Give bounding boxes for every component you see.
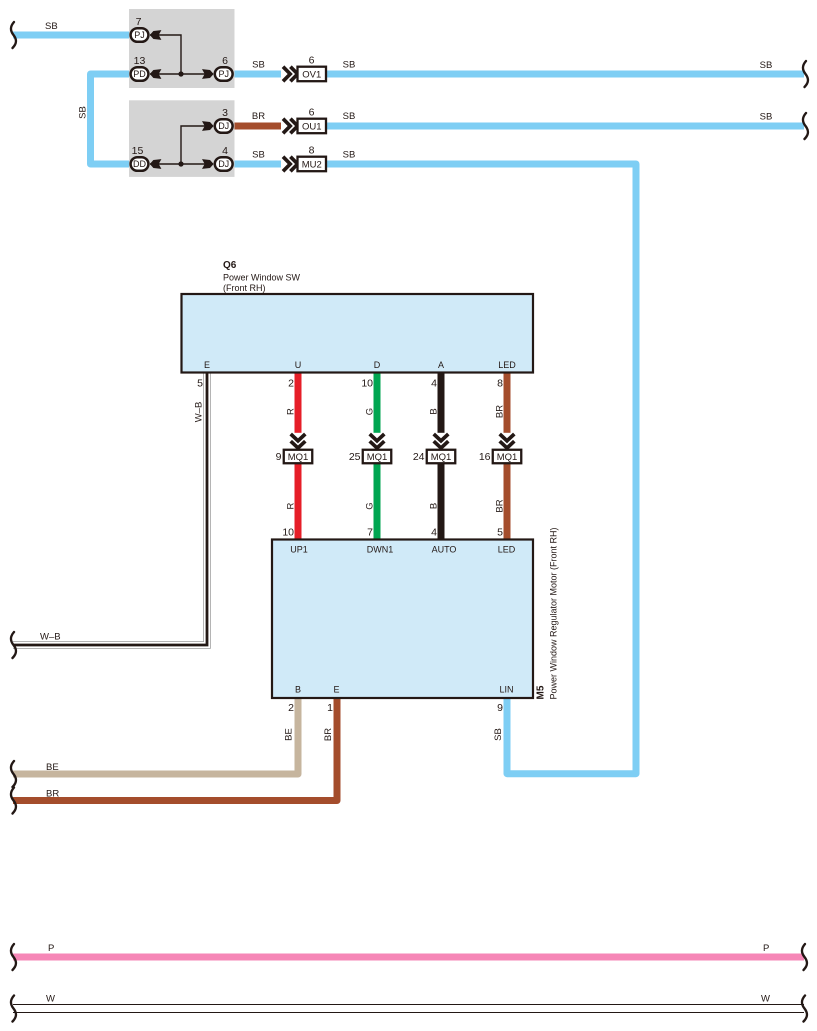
wire W bottom: [13, 1004, 804, 1013]
svg-text:5: 5: [497, 527, 503, 539]
svg-text:25: 25: [349, 451, 361, 463]
svg-text:(Front RH): (Front RH): [223, 283, 266, 293]
connector MU2 pin 8: [298, 145, 327, 172]
svg-text:DD: DD: [133, 159, 146, 169]
svg-text:MU2: MU2: [302, 159, 322, 170]
svg-text:7: 7: [367, 527, 373, 539]
svg-text:MQ1: MQ1: [497, 452, 518, 463]
wire BR from Q6 pin LED: [504, 371, 511, 541]
wire SB row B: PJ6 to right edge: [231, 71, 804, 78]
svg-text:BR: BR: [252, 111, 265, 122]
break symbol P right: [802, 944, 807, 970]
svg-text:SB: SB: [45, 21, 58, 32]
break symbol BE left: [11, 761, 16, 787]
svg-text:2: 2: [288, 702, 294, 714]
connector MQ1 pin 25: [349, 450, 391, 464]
svg-text:7: 7: [136, 16, 142, 28]
svg-text:LED: LED: [498, 360, 516, 370]
svg-text:B: B: [295, 685, 301, 695]
svg-text:15: 15: [132, 145, 144, 157]
arrow into DJ4: [202, 159, 214, 169]
svg-text:W–B: W–B: [40, 632, 61, 643]
wire inside J2: [150, 126, 213, 164]
svg-text:E: E: [204, 360, 210, 370]
svg-text:W: W: [761, 994, 770, 1005]
svg-text:D: D: [374, 360, 381, 370]
svg-text:1: 1: [327, 702, 333, 714]
svg-text:8: 8: [497, 378, 503, 390]
svg-text:4: 4: [431, 527, 437, 539]
svg-text:DJ: DJ: [218, 159, 229, 169]
connector PD pin 13: [131, 55, 149, 81]
svg-text:9: 9: [497, 702, 503, 714]
svg-text:Power Window SW: Power Window SW: [223, 273, 301, 283]
svg-text:SB: SB: [343, 59, 356, 70]
break symbol BR left: [11, 788, 16, 814]
wire SB top-left to PJ7: [13, 32, 136, 39]
svg-text:DJ: DJ: [218, 121, 229, 131]
arrow into PJ6: [202, 69, 214, 79]
wire SB row D: DJ4 via MU2 right side down to LIN: [231, 164, 636, 774]
svg-text:9: 9: [276, 451, 282, 463]
svg-text:PJ: PJ: [134, 30, 145, 40]
svg-text:B: B: [429, 408, 440, 414]
wire W-B from Q6 pin E: [13, 371, 207, 645]
wire BE from motor pin B: [13, 696, 298, 774]
connector OV1 pin 6: [298, 55, 327, 82]
chevron down wire U: [290, 433, 307, 450]
svg-text:PJ: PJ: [218, 69, 229, 79]
svg-text:4: 4: [222, 145, 228, 157]
svg-text:BR: BR: [323, 728, 334, 741]
svg-text:DWN1: DWN1: [367, 545, 394, 555]
svg-text:W: W: [46, 994, 55, 1005]
svg-text:10: 10: [361, 378, 373, 390]
svg-text:U: U: [295, 360, 302, 370]
component M5 Power Window Regulator Motor box: [272, 540, 533, 699]
svg-text:MQ1: MQ1: [367, 452, 388, 463]
break symbol W right: [802, 996, 807, 1022]
svg-text:B: B: [429, 503, 440, 509]
wire P bottom: [13, 954, 804, 961]
connector MQ1 pin 24: [413, 450, 455, 464]
svg-text:4: 4: [431, 378, 437, 390]
label Q6 title: [223, 260, 301, 293]
wire SB from PD left down to DD: [91, 74, 137, 164]
connector MQ1 pin 9: [276, 450, 313, 464]
arrow into DJ3: [202, 121, 214, 131]
svg-text:6: 6: [222, 55, 228, 67]
svg-text:E: E: [333, 685, 339, 695]
chevron row D: [281, 156, 298, 173]
svg-text:Q6: Q6: [223, 260, 237, 271]
connector DD pin 15: [131, 145, 149, 171]
svg-text:BR: BR: [46, 789, 59, 800]
svg-text:6: 6: [309, 107, 315, 119]
connector PJ pin 7: [131, 16, 149, 42]
connector PJ pin 6: [215, 55, 233, 81]
chevron down wire D: [369, 433, 386, 450]
svg-text:3: 3: [222, 107, 228, 119]
arrow into DD: [150, 159, 162, 169]
junction dot J1: [178, 71, 183, 76]
svg-text:SB: SB: [343, 149, 356, 160]
svg-text:SB: SB: [493, 728, 504, 741]
wire B from Q6 pin A: [438, 371, 445, 541]
break symbol row B right: [803, 61, 808, 87]
svg-text:5: 5: [197, 378, 203, 390]
svg-text:PD: PD: [133, 69, 146, 79]
svg-text:G: G: [365, 408, 376, 415]
break symbol P left: [11, 944, 16, 970]
arrow into PJ7: [150, 30, 162, 40]
svg-text:W–B: W–B: [194, 402, 205, 423]
svg-text:13: 13: [134, 55, 146, 67]
svg-text:OV1: OV1: [302, 69, 321, 80]
svg-text:AUTO: AUTO: [432, 545, 457, 555]
svg-text:6: 6: [309, 55, 315, 67]
connector OU1 pin 6: [298, 107, 327, 134]
svg-text:G: G: [365, 502, 376, 509]
connector MQ1 pin 16: [479, 450, 521, 464]
break symbol SB top-left: [11, 22, 16, 48]
svg-text:BR: BR: [495, 405, 506, 418]
svg-text:BE: BE: [284, 728, 295, 741]
svg-text:2: 2: [288, 378, 294, 390]
break symbol row C right: [803, 113, 808, 139]
svg-text:MQ1: MQ1: [288, 452, 309, 463]
junction dot J2: [178, 161, 183, 166]
svg-text:Power Window Regulator Motor (: Power Window Regulator Motor (Front RH): [549, 527, 559, 699]
svg-text:BE: BE: [46, 762, 59, 773]
svg-text:SB: SB: [343, 111, 356, 122]
wire BR row C: DJ3 to OU1: [231, 123, 312, 130]
svg-text:UP1: UP1: [290, 545, 308, 555]
chevron down wire A: [433, 433, 450, 450]
connector DJ pin 4: [215, 145, 233, 171]
chevron row C: [281, 118, 298, 135]
wire inside J1: [150, 35, 213, 74]
svg-text:SB: SB: [252, 59, 265, 70]
svg-text:10: 10: [282, 527, 294, 539]
connector DJ pin 3: [215, 107, 233, 133]
arrow into PD: [150, 69, 162, 79]
svg-text:16: 16: [479, 451, 491, 463]
svg-text:P: P: [763, 943, 769, 954]
svg-text:R: R: [286, 502, 297, 509]
wire BR from motor pin E: [13, 696, 337, 801]
junction block J1 (gray box top): [129, 9, 235, 88]
chevron row B: [281, 66, 298, 83]
svg-text:SB: SB: [760, 60, 773, 71]
break symbol W left: [11, 996, 16, 1022]
svg-text:M5: M5: [536, 685, 547, 699]
wire R from Q6 pin U: [295, 371, 302, 541]
svg-text:SB: SB: [760, 112, 773, 123]
break symbol W-B left: [11, 632, 16, 658]
svg-text:BR: BR: [495, 499, 506, 512]
svg-text:R: R: [286, 408, 297, 415]
svg-text:A: A: [438, 360, 444, 370]
component Q6 Power Window SW box: [182, 294, 534, 373]
junction block J2 (gray box bottom): [129, 100, 235, 177]
svg-text:LED: LED: [498, 545, 516, 555]
svg-text:P: P: [48, 943, 54, 954]
wire G from Q6 pin D: [374, 371, 381, 541]
wire SB row C: OU1 to right edge: [312, 123, 804, 130]
svg-text:LIN: LIN: [499, 685, 513, 695]
svg-text:SB: SB: [252, 149, 265, 160]
chevron down wire LED: [499, 433, 516, 450]
svg-text:8: 8: [309, 145, 315, 157]
svg-text:24: 24: [413, 451, 425, 463]
svg-text:MQ1: MQ1: [431, 452, 452, 463]
svg-text:SB: SB: [78, 106, 89, 119]
svg-text:OU1: OU1: [302, 121, 322, 132]
